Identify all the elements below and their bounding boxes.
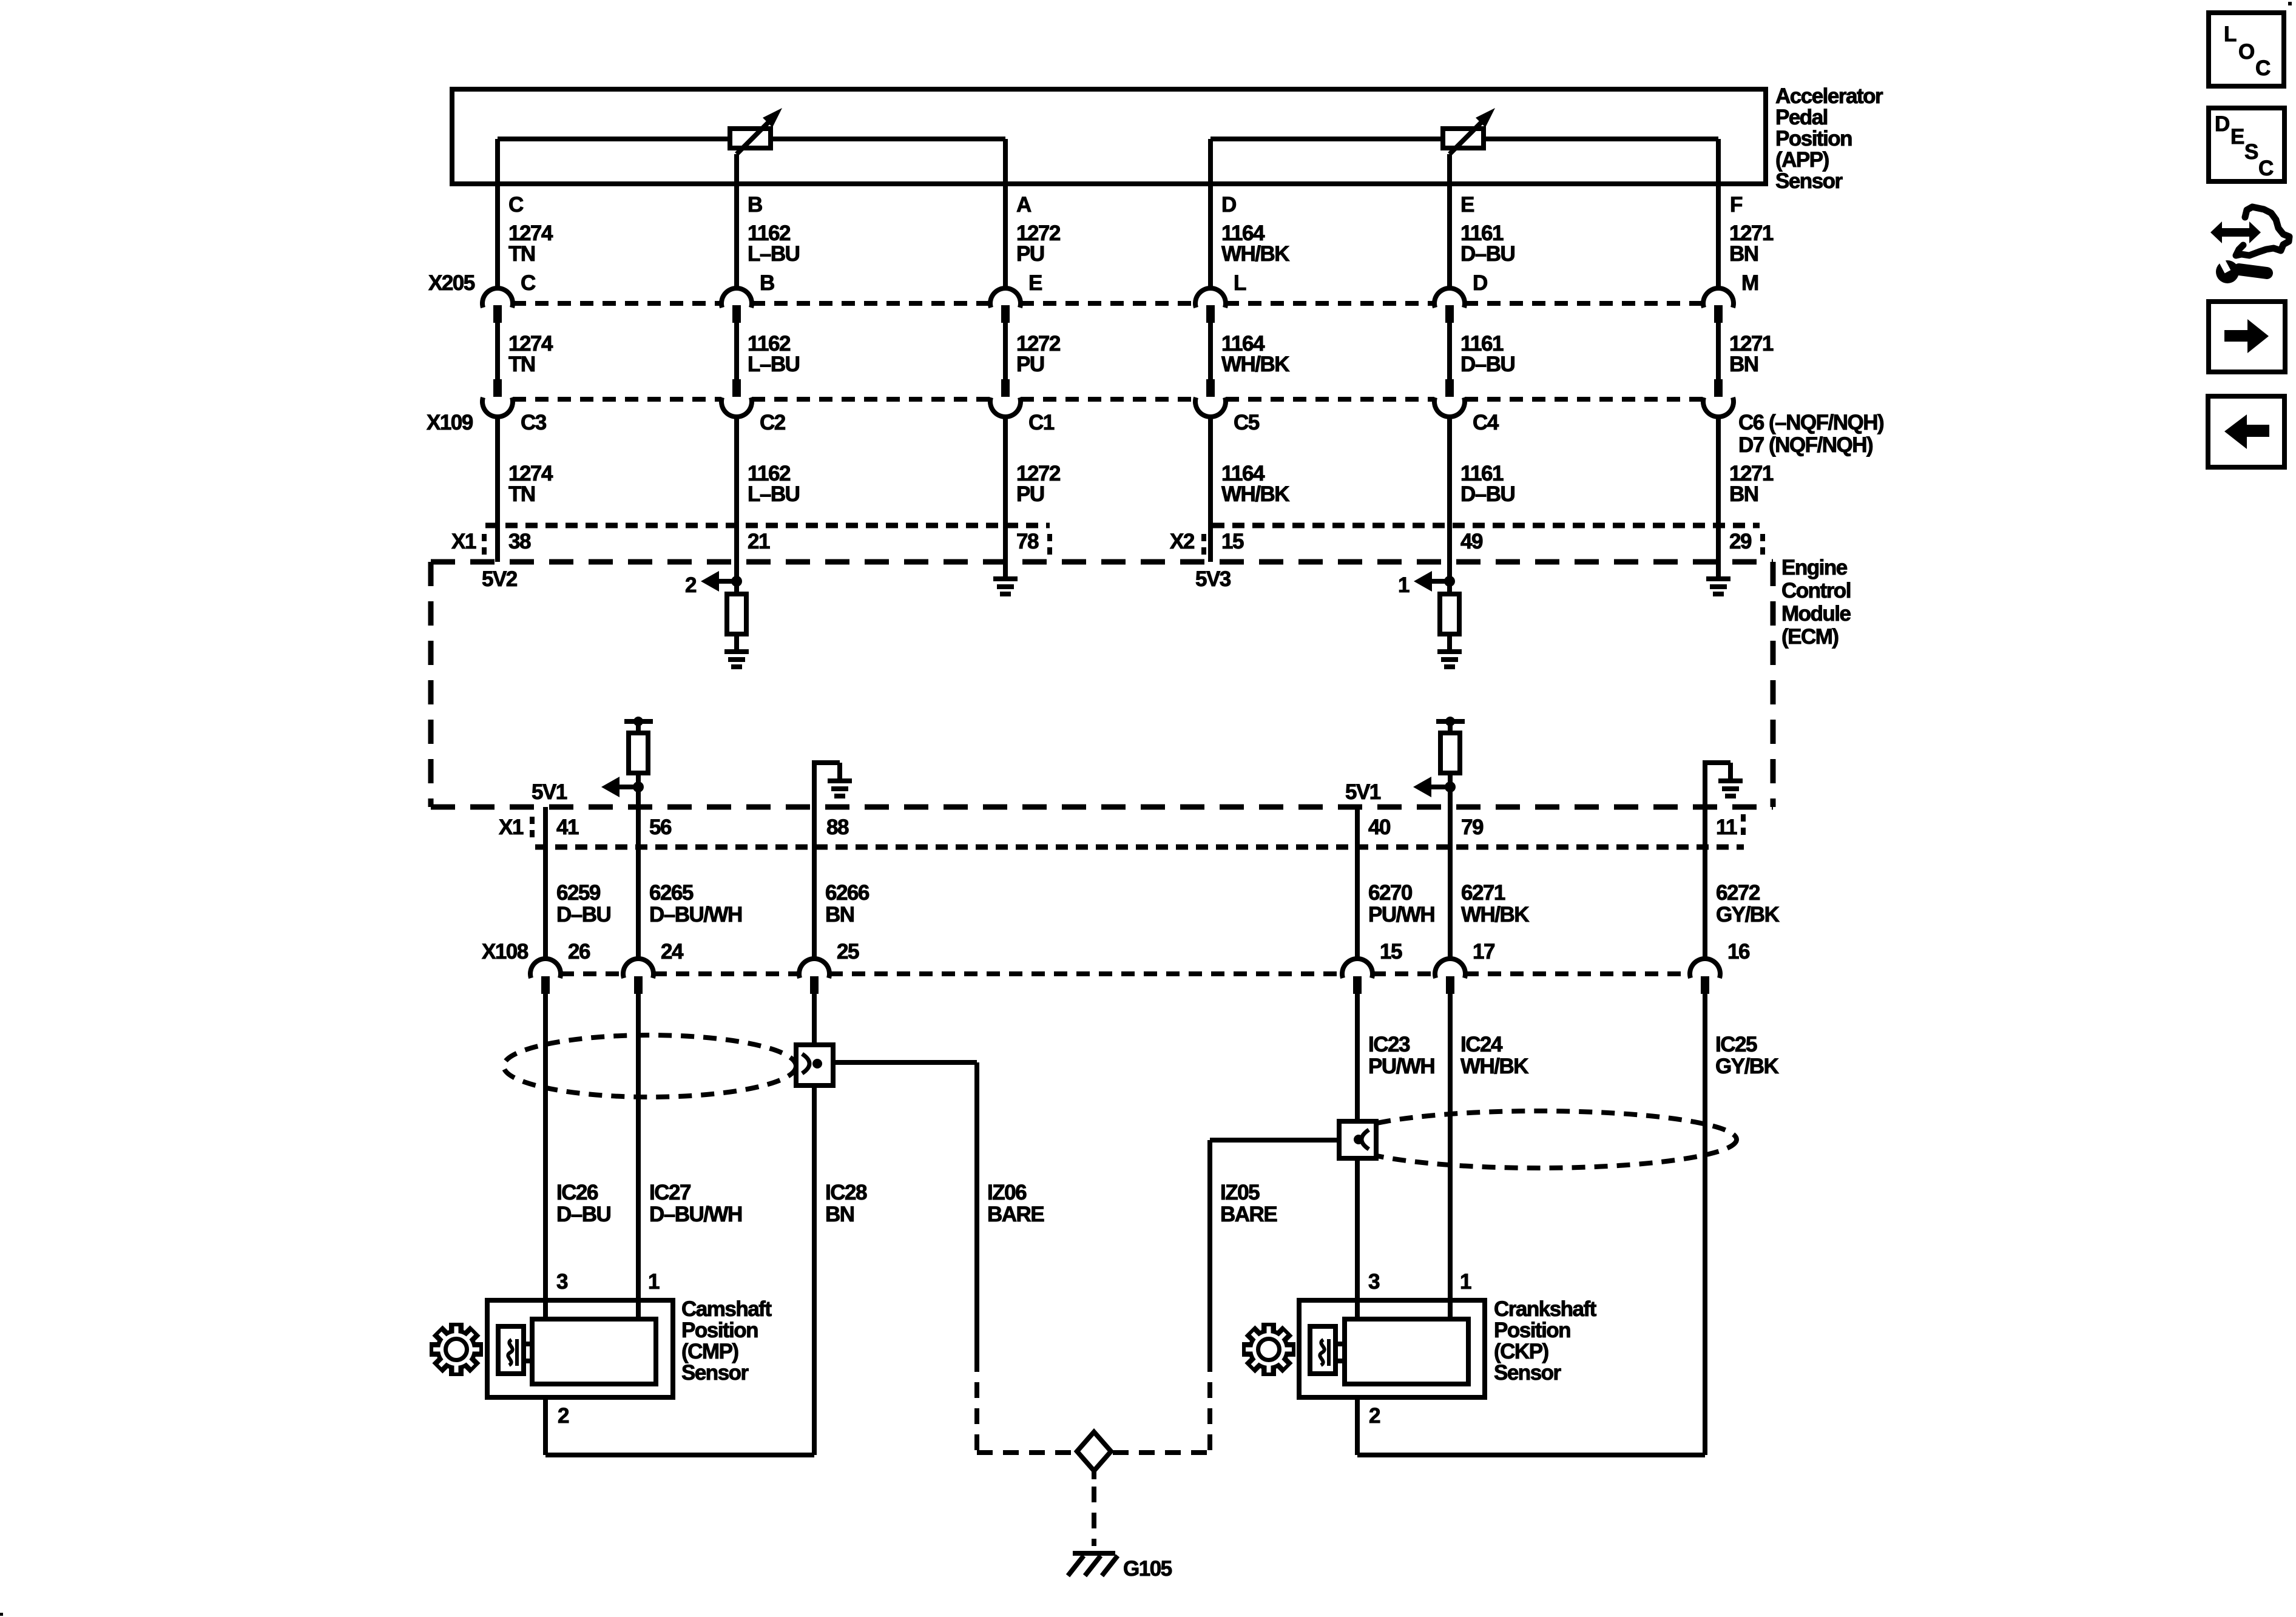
connector X1 line (ECM top) [451,525,1050,555]
svg-text:5V2: 5V2 [482,567,518,591]
svg-text:Position: Position [681,1318,758,1342]
connector X109 terminal 4 [1195,379,1226,417]
wire X109 to ECM pin (C) [495,417,500,562]
wire X205-L to X109 [1208,322,1213,380]
wire CKP pin 2 return [1357,1397,1705,1455]
svg-text:Position: Position [1775,127,1852,150]
APP pin letters C B A D E F [508,193,1743,217]
wire X205-M to X109 [1716,322,1721,380]
svg-text:78: 78 [1016,530,1039,553]
svg-text:E: E [1028,271,1042,295]
svg-text:40: 40 [1368,815,1391,839]
wire X205-C to X109 [495,322,500,380]
page mark bottom-left [0,1613,3,1616]
svg-text:Camshaft: Camshaft [681,1297,772,1321]
APP sensor box [452,89,1766,184]
wire ECM to X108 at x=899 [543,807,548,959]
svg-text:PU: PU [1016,353,1044,376]
svg-text:6259: 6259 [556,881,601,905]
svg-text:IC24: IC24 [1460,1033,1503,1056]
resistor (ECM pull-down at pin 21) [727,594,746,634]
wire ECM to X108 at x=2237 [1355,807,1360,959]
wire X109 to ECM pin (E) [1447,417,1452,562]
svg-text:25: 25 [837,940,859,964]
connector X109 terminal 6 [1703,379,1734,417]
icon DESC box [2209,108,2284,181]
connector X108 terminal 16 [1690,959,1720,994]
svg-text:S: S [2244,140,2258,164]
ECM dashed box [431,562,1773,807]
ground G105 symbol [1068,1551,1118,1576]
svg-text:(CKP): (CKP) [1494,1340,1548,1363]
svg-text:1: 1 [1398,573,1410,597]
internal wire ECM pin 21 [734,562,739,594]
5V rail tick with node (right) [1436,717,1465,726]
svg-text:38: 38 [508,530,531,553]
svg-text:Position: Position [1494,1318,1570,1342]
node arrow 5V1 (right) [1413,777,1456,797]
potentiometer (APP sensor 1) [498,108,1005,154]
svg-text:88: 88 [826,815,849,839]
svg-text:PU: PU [1016,482,1044,506]
connector X109 dashed line [427,399,1703,434]
connector X109 terminal 2 [721,379,752,417]
CKP pickup element [1310,1326,1345,1374]
icon back arrow box [2208,396,2284,467]
svg-text:IC23: IC23 [1368,1033,1410,1056]
svg-text:X109: X109 [427,411,473,434]
svg-text:IZ05: IZ05 [1220,1181,1260,1204]
svg-text:3: 3 [556,1270,568,1294]
svg-text:2: 2 [685,573,697,597]
svg-text:2: 2 [1369,1404,1380,1428]
svg-text:IC25: IC25 [1715,1033,1757,1056]
X205 pin letters [521,271,1758,295]
CMP sensor body [532,1319,656,1384]
wire IZ06 horizontal [833,1060,977,1065]
svg-text:PU: PU [1016,242,1044,266]
CMP sensor pin labels 3 1 [556,1270,660,1294]
svg-text:D–BU/WH: D–BU/WH [649,1203,742,1226]
svg-text:F: F [1730,193,1743,217]
wire tick to resistor (left) [636,724,641,733]
wire IC28 upper (X108-25 to shield term) [812,994,817,1045]
svg-text:TN: TN [508,482,535,506]
connector X205 terminal D [1434,288,1465,323]
svg-text:C4: C4 [1473,411,1499,434]
svg-text:GY/BK: GY/BK [1715,1055,1779,1078]
svg-text:L–BU: L–BU [748,353,800,376]
CKP sensor body [1345,1319,1468,1384]
wire resistor to ground (pin 21) [734,634,739,649]
connector X205 terminal L [1195,288,1226,323]
svg-text:E: E [1460,193,1474,217]
svg-text:Control: Control [1781,579,1851,603]
ground (ECM internal, pin 49) [1437,649,1462,669]
svg-text:(ECM): (ECM) [1781,625,1838,649]
svg-text:Engine: Engine [1781,556,1848,579]
icon forward arrow box [2209,302,2285,372]
svg-text:D–BU: D–BU [1460,482,1515,506]
svg-text:C: C [521,271,536,295]
svg-text:WH/BK: WH/BK [1221,242,1289,266]
ground (ECM internal, pin 78) [993,576,1018,596]
svg-text:C5: C5 [1234,411,1260,434]
svg-text:21: 21 [748,530,770,553]
svg-text:WH/BK: WH/BK [1221,353,1289,376]
CKP sensor pin labels 3 1 [1368,1270,1471,1294]
svg-text:D–BU: D–BU [556,1203,611,1226]
svg-text:6272: 6272 [1716,881,1760,905]
wire splice to G105 dashed [1092,1471,1096,1546]
svg-text:29: 29 [1729,530,1752,553]
svg-text:D: D [1473,271,1487,295]
icon wiring-repair (arrows and wrench) [2210,207,2289,283]
wire IZ05 horizontal [1210,1138,1339,1143]
svg-text:C1: C1 [1028,411,1055,434]
svg-text:6270: 6270 [1368,881,1413,905]
wire ECM to X108 at x=1342 [812,807,817,959]
svg-text:16: 16 [1727,940,1750,964]
wire IZ05 dashed to splice [1113,1356,1210,1453]
svg-text:5V3: 5V3 [1195,567,1231,591]
ground (ECM internal, pin 21) [724,649,749,669]
svg-text:5V1: 5V1 [532,780,567,804]
svg-text:IC26: IC26 [556,1181,598,1204]
wire ECM to X108 at x=2390 [1448,787,1453,959]
svg-text:56: 56 [649,815,672,839]
svg-text:26: 26 [568,940,590,964]
svg-text:X108: X108 [482,940,528,964]
wire IC24 (X108-17 to CKP 1) [1448,994,1453,1319]
wire X109 to ECM pin (D) [1208,417,1213,562]
svg-text:C3: C3 [521,411,547,434]
svg-text:O: O [2238,40,2254,64]
svg-text:1: 1 [1460,1270,1471,1294]
resistor (ECM 5V1 right) [1440,733,1460,773]
wire APP pin E to X205 [1447,154,1452,289]
wire tick to resistor (right) [1448,724,1453,733]
internal wire ECM pin 11 ground [1703,763,1730,807]
wire IZ06 vertical solid [974,1062,979,1356]
wire CMP pin 2 return [545,1397,814,1455]
svg-text:Sensor: Sensor [681,1361,749,1385]
splice S105 diamond [1077,1432,1111,1471]
svg-text:L: L [2224,22,2237,46]
svg-text:BN: BN [825,903,854,927]
wire ECM to X108 at x=1052 [636,787,641,959]
connector X108 terminal 24 [623,959,653,994]
wire X109 to ECM pin (F) [1716,417,1721,562]
CMP sensor outer box [487,1300,673,1397]
wire APP pin A to X205 [1003,139,1008,289]
svg-text:D: D [1221,193,1236,217]
connector X205 terminal C [482,288,513,323]
labels circuit 6259/6265/6266/6270/6271/6272 [556,881,1780,927]
connector X109 terminal 3 [990,379,1021,417]
svg-text:Module: Module [1781,602,1851,626]
svg-text:5V1: 5V1 [1345,780,1381,804]
internal wire ECM pin 78 to ground [1003,562,1008,579]
svg-text:6271: 6271 [1461,881,1505,905]
label Engine Control Module (ECM) [1781,556,1851,649]
wire X109 to ECM pin (A) [1003,417,1008,562]
svg-text:IC27: IC27 [649,1181,690,1204]
svg-text:G105: G105 [1123,1557,1172,1581]
svg-text:Sensor: Sensor [1494,1361,1562,1385]
svg-text:X1: X1 [499,815,524,839]
svg-text:Crankshaft: Crankshaft [1494,1297,1597,1321]
svg-text:WH/BK: WH/BK [1221,482,1289,506]
icon LOC box [2209,13,2284,86]
svg-text:BN: BN [1729,242,1758,266]
shield ellipse (CKP harness) [1341,1111,1737,1168]
svg-text:X205: X205 [428,271,475,295]
svg-text:X1: X1 [451,530,476,553]
svg-text:D–BU: D–BU [1460,242,1515,266]
ground (ECM internal, pin 11) [1718,778,1743,798]
svg-text:L–BU: L–BU [748,482,800,506]
svg-text:BN: BN [1729,482,1758,506]
internal wire ECM pin 88 ground [812,763,840,807]
wire X205-B to X109 [734,322,739,380]
wire IC26 (X108-26 to CMP 3) [543,994,548,1319]
wire ECM to X108 at x=2810 [1703,807,1707,959]
svg-text:(CMP): (CMP) [681,1340,738,1363]
wire resistor to node (right) [1448,773,1453,807]
svg-text:C2: C2 [760,411,786,434]
wire IC25 (X108-16 to CKP return) [1703,994,1707,1455]
connector X108 terminal 15 [1342,959,1373,994]
svg-text:(APP): (APP) [1775,148,1829,172]
internal wire ECM pin 29 to ground [1716,562,1721,579]
ECM bottom pin numbers 41 56 88 40 79 11 [556,815,1737,839]
svg-text:M: M [1741,271,1758,295]
svg-text:1: 1 [648,1270,660,1294]
CMP pickup element [498,1326,532,1374]
shield ellipse (CMP harness) [504,1035,796,1097]
ground (ECM internal, pin 88) [828,778,852,798]
connector X205 terminal M [1703,288,1734,323]
wire APP pin F to X205 [1716,139,1721,289]
svg-text:IC28: IC28 [825,1181,867,1204]
connector X108 terminal 17 [1435,959,1465,994]
svg-text:6265: 6265 [649,881,694,905]
wire IC23 upper (X108-15 to shield term) [1355,994,1360,1121]
CKP sensor outer box [1299,1300,1485,1397]
shield termination box (CKP) [1339,1121,1376,1158]
svg-text:2: 2 [558,1404,569,1428]
wire X205-E to X109 [1003,322,1008,380]
connector X1 line (ECM bottom) [499,814,1744,847]
connector X109 terminal 5 [1434,379,1465,417]
labels circuit 1274/1162/1272/1164/1161/1271 (upper) [508,221,1774,266]
connector X205 terminal B [721,288,752,323]
svg-text:Sensor: Sensor [1775,169,1843,193]
label Camshaft Position (CMP) Sensor [681,1297,772,1385]
connector X108 terminal 25 [799,959,829,994]
ground (ECM internal, pin 29) [1706,576,1730,596]
wire X205-D to X109 [1447,322,1452,380]
svg-text:D: D [2215,112,2229,136]
svg-text:WH/BK: WH/BK [1461,903,1529,927]
svg-text:TN: TN [508,242,535,266]
wire IC27 (X108-24 to CMP 1) [636,994,641,1319]
svg-text:BARE: BARE [1220,1203,1277,1226]
labels IC23 IC24 IC25 [1368,1033,1779,1078]
svg-text:17: 17 [1473,940,1494,964]
shield termination box (CMP) [796,1045,833,1085]
connector X108 dashed line [482,940,1690,974]
connector X108 terminal 26 [530,959,561,994]
page mark top-right [2288,2,2292,5]
wire APP pin B to X205 [734,154,739,289]
gear icon (camshaft reluctor) [430,1323,483,1376]
svg-text:D–BU/WH: D–BU/WH [649,903,742,927]
ECM top pin numbers 38 21 78 15 49 29 [508,530,1752,553]
svg-text:B: B [748,193,762,217]
svg-text:Pedal: Pedal [1775,106,1828,129]
node 1 arrow (ECM) [1398,571,1455,597]
svg-text:C6 (–NQF/NQH): C6 (–NQF/NQH) [1738,411,1883,434]
svg-text:15: 15 [1221,530,1244,553]
X109 pin labels [521,411,1883,457]
labels circuit numbers (middle) [508,332,1774,376]
labels IC26 IC27 IC28 IZ06 IZ05 [556,1181,1277,1226]
labels circuit numbers (lower) [508,462,1774,506]
svg-text:79: 79 [1461,815,1484,839]
svg-text:3: 3 [1368,1270,1380,1294]
label Accelerator Pedal Position (APP) Sensor [1775,84,1883,193]
svg-text:D7 (NQF/NQH): D7 (NQF/NQH) [1738,433,1872,457]
svg-text:TN: TN [508,353,535,376]
svg-text:PU/WH: PU/WH [1368,1055,1434,1078]
connector X205 terminal E [990,288,1021,323]
label Crankshaft Position (CKP) Sensor [1494,1297,1597,1385]
svg-text:49: 49 [1460,530,1483,553]
wire IZ05 vertical solid [1207,1140,1212,1356]
svg-text:A: A [1016,193,1032,217]
svg-text:PU/WH: PU/WH [1368,903,1434,927]
svg-text:C: C [508,193,524,217]
svg-text:L: L [1234,271,1246,295]
gear icon (crankshaft reluctor) [1242,1323,1295,1376]
svg-text:6266: 6266 [825,881,869,905]
svg-text:24: 24 [661,940,684,964]
svg-text:C: C [2258,157,2274,180]
internal wire ECM pin 49 [1447,562,1452,594]
wire resistor to ground (pin 49) [1447,634,1452,649]
wire X109 to ECM pin (B) [734,417,739,562]
connector X205 dashed line [428,271,1703,303]
svg-text:C: C [2255,56,2271,80]
X108 pin numbers [568,940,1750,964]
svg-text:15: 15 [1380,940,1402,964]
svg-text:WH/BK: WH/BK [1460,1055,1528,1078]
svg-text:41: 41 [556,815,579,839]
svg-text:X2: X2 [1170,530,1195,553]
svg-text:L–BU: L–BU [748,242,800,266]
connector X109 terminal 1 [482,379,513,417]
wire IZ06 dashed to splice [977,1356,1075,1453]
svg-text:BN: BN [1729,353,1758,376]
svg-text:D–BU: D–BU [556,903,611,927]
svg-text:Accelerator: Accelerator [1775,84,1883,108]
wire APP pin D to X205 [1208,139,1213,289]
svg-text:BN: BN [825,1203,854,1226]
node 2 arrow (ECM) [685,571,742,597]
svg-text:BARE: BARE [987,1203,1044,1226]
potentiometer (APP sensor 2) [1210,108,1718,154]
5V rail tick with node (left) [624,717,653,726]
svg-text:D–BU: D–BU [1460,353,1515,376]
svg-text:B: B [760,271,774,295]
connector X2 line (ECM top) [1170,525,1763,555]
wire CKP pin3 lower (shield term to CKP 3) [1355,1158,1360,1319]
svg-text:E: E [2230,125,2244,149]
svg-text:IZ06: IZ06 [987,1181,1027,1204]
wire resistor to node (left) [636,773,641,807]
resistor (ECM 5V1 left) [629,733,648,773]
svg-text:11: 11 [1716,815,1737,839]
resistor (ECM pull-down at pin 49) [1440,594,1459,634]
wire IC28 lower (shield term to CMP 2 return) [812,1085,817,1455]
wire APP pin C to X205 [495,139,500,289]
node arrow 5V1 (left) [601,777,644,797]
svg-text:GY/BK: GY/BK [1716,903,1780,927]
